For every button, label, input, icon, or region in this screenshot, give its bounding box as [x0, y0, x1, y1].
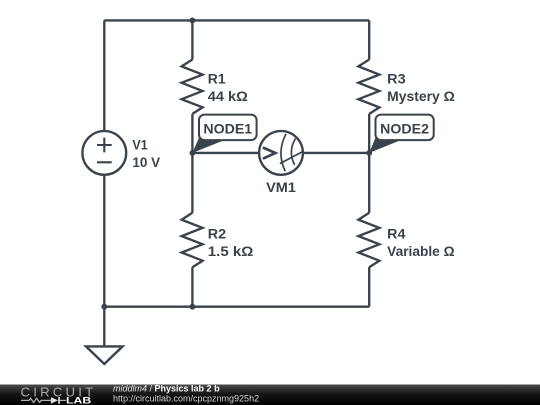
svg-text:NODE1: NODE1 — [203, 121, 252, 136]
svg-text:Mystery Ω: Mystery Ω — [387, 89, 455, 104]
wire right rail bottom — [368, 267, 370, 307]
voltmeter VM1 — [259, 131, 303, 175]
NODE2 callout pointer — [369, 138, 400, 153]
NODE2 callout box — [376, 115, 434, 141]
svg-text:V1: V1 — [132, 138, 148, 153]
CircuitLab logo resistor zigzag — [21, 398, 51, 402]
svg-text:10 V: 10 V — [132, 155, 160, 170]
svg-text:LAB: LAB — [66, 395, 92, 405]
svg-text:middlm4 / Physics lab 2 b: middlm4 / Physics lab 2 b — [113, 383, 220, 393]
voltage source V1 — [82, 131, 126, 175]
node junction dot bottom middle — [189, 304, 195, 310]
svg-text:1.5 kΩ: 1.5 kΩ — [208, 244, 254, 259]
wire right rail between R3 and NODE2 — [368, 114, 370, 153]
wire right rail between NODE2 and R4 — [368, 153, 370, 213]
node junction dot top middle — [189, 17, 195, 23]
wire right rail top — [368, 20, 370, 59]
NODE1 callout pointer — [192, 138, 224, 153]
wire left rail lower — [103, 175, 105, 307]
resistor R3 — [358, 60, 379, 114]
NODE1 callout box — [199, 115, 257, 141]
node NODE2 dot — [366, 150, 372, 156]
resistor R4 — [358, 213, 379, 267]
wire middle rail between NODE1 and R2 — [191, 153, 193, 213]
wire ground stem — [103, 307, 105, 347]
resistor R1 — [182, 60, 203, 114]
wire middle horizontal right (VM1 to NODE2) — [303, 152, 369, 154]
svg-text:NODE2: NODE2 — [380, 121, 429, 136]
svg-text:http://circuitlab.com/cpcpznmg: http://circuitlab.com/cpcpznmg925h2 — [113, 394, 259, 404]
node NODE1 dot — [189, 150, 195, 156]
node junction dot bottom left — [101, 304, 107, 310]
svg-text:R3: R3 — [387, 72, 406, 87]
svg-text:R2: R2 — [208, 227, 226, 242]
svg-text:R1: R1 — [208, 72, 226, 87]
svg-text:Variable Ω: Variable Ω — [387, 244, 455, 259]
wire left rail upper — [103, 20, 105, 131]
wire middle horizontal left (NODE1 to VM1) — [192, 152, 259, 154]
wire top rail — [104, 19, 369, 21]
footer bar — [0, 385, 540, 405]
ground — [86, 346, 123, 364]
resistor R2 — [182, 213, 203, 267]
wire middle rail bottom — [191, 267, 193, 307]
svg-text:R4: R4 — [387, 227, 406, 242]
wire middle rail top — [191, 20, 193, 59]
svg-text:VM1: VM1 — [266, 180, 296, 195]
svg-text:44 kΩ: 44 kΩ — [208, 89, 248, 104]
wire middle rail between R1 and NODE1 — [191, 114, 193, 153]
wire bottom rail — [104, 306, 369, 308]
CircuitLab logo diode — [51, 397, 58, 404]
